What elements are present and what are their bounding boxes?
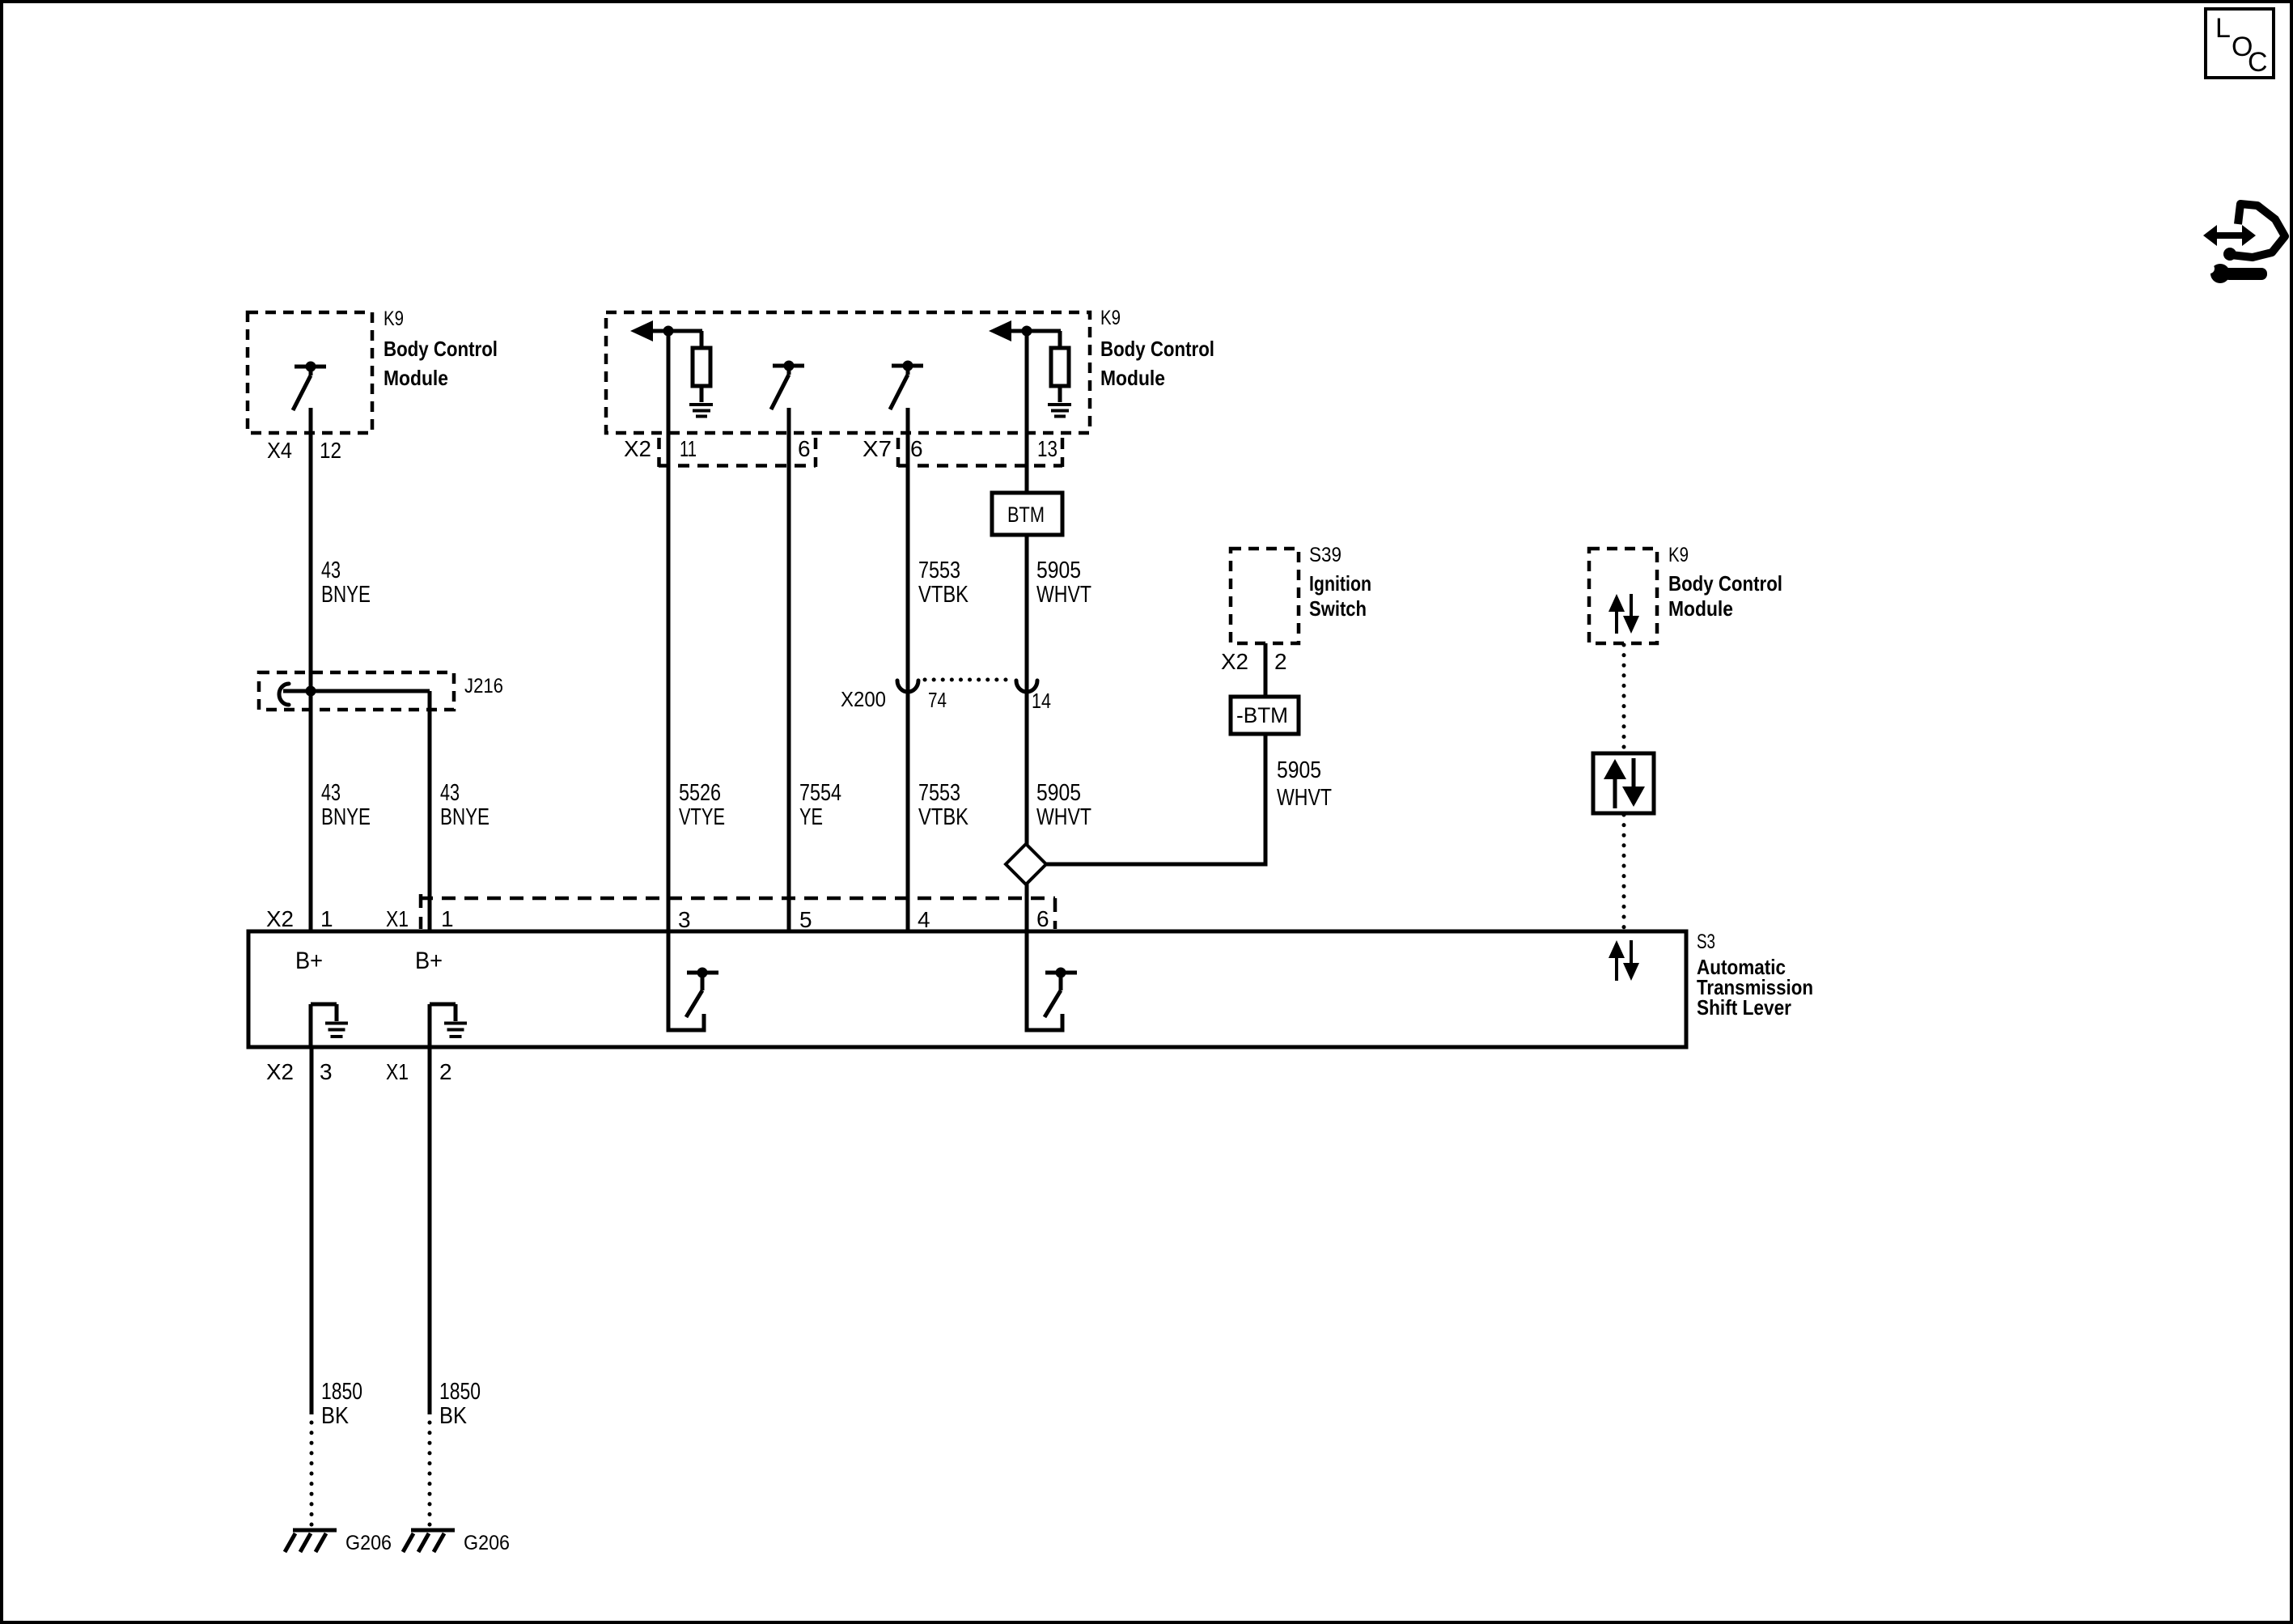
up/down arrows icon (inside S3) (1608, 940, 1639, 981)
svg-text:G206: G206 (345, 1532, 392, 1554)
J216 splice dashed box (259, 672, 454, 710)
shift-interlock wrench icon (2203, 204, 2285, 283)
svg-text:K9: K9 (1100, 307, 1121, 329)
svg-text:14: 14 (1032, 689, 1051, 713)
splice curl (279, 684, 289, 705)
X200 in-line connector (897, 680, 1037, 692)
connector bracket X7 under middle K9 (898, 438, 1062, 467)
svg-text:11: 11 (680, 436, 697, 461)
svg-text:43: 43 (440, 780, 460, 806)
splice diamond (1006, 844, 1046, 884)
left arrow (signal out, right side) (989, 320, 1011, 341)
svg-text:2: 2 (1274, 649, 1287, 674)
internal switch (pin 3) (667, 931, 719, 1032)
up/down arrows icon (inside right K9) (1608, 594, 1639, 634)
svg-text:X7: X7 (863, 436, 892, 461)
LOC reference box (2206, 9, 2274, 78)
wire 43 BNYE from K9 X4-12 down to J216 and S3 (309, 408, 313, 931)
connector bracket X1 above S3 (419, 894, 1055, 929)
ground wire left (S3 X2-3) (310, 1049, 314, 1414)
svg-text:WHVT: WHVT (1036, 804, 1091, 830)
svg-text:5905: 5905 (1036, 780, 1081, 806)
svg-text:X2: X2 (266, 1059, 294, 1084)
svg-text:YE: YE (799, 804, 823, 830)
svg-text:X4: X4 (267, 438, 292, 463)
label 43 BNYE (right lower) (440, 780, 490, 830)
svg-text:Module: Module (1668, 596, 1733, 621)
S3 Automatic Transmission Shift Lever box (248, 931, 1686, 1047)
svg-text:4: 4 (918, 907, 930, 932)
label 1850 BK left (321, 1379, 362, 1429)
svg-text:43: 43 (321, 558, 341, 583)
label 5526 VTYE (679, 780, 725, 830)
junction node pin13 (1022, 326, 1032, 337)
svg-text:BNYE: BNYE (321, 804, 371, 830)
svg-text:X1: X1 (386, 1059, 409, 1084)
dotted link wire (icon to S3) (1622, 815, 1626, 930)
K9 labels (right box) (1668, 544, 1782, 621)
junction node pin11 (663, 326, 674, 337)
svg-text:X1: X1 (386, 906, 409, 931)
svg-text:BNYE: BNYE (321, 582, 371, 608)
wire 5905 WHVT (BTM to S3 pin 6) (1025, 535, 1029, 931)
switch (X7-6, middle K9) (890, 361, 923, 410)
S39 labels (1309, 544, 1371, 621)
dotted ground run left (310, 1423, 314, 1525)
label 5905 WHVT (ignition branch) (1277, 757, 1332, 811)
wire 43 BNYE branch down from J216 (428, 691, 432, 931)
dotted ground run right (428, 1423, 432, 1525)
svg-text:B+: B+ (295, 948, 323, 974)
-BTM box (1231, 697, 1299, 734)
svg-text:K9: K9 (1668, 544, 1689, 566)
svg-text:74: 74 (928, 688, 947, 712)
wire from arrow to resistor branch (651, 329, 702, 333)
K9 Body Control Module box (top middle, dashed) (606, 312, 1090, 433)
svg-text:13: 13 (1037, 436, 1057, 461)
K9 Body Control Module box (top left, dashed) (248, 312, 372, 433)
wire S39 X2-2 down (1264, 643, 1268, 697)
svg-text:G206: G206 (464, 1532, 510, 1554)
svg-text:-BTM: -BTM (1236, 703, 1288, 727)
wire 7554 YE (pin 6 to S3 pin 5) (787, 408, 791, 931)
svg-text:C: C (2248, 47, 2268, 78)
label 1850 BK right (439, 1379, 481, 1429)
wire from arrow to resistor branch right (1010, 329, 1061, 333)
wire 5526 VTYE (pin 11 to S3 pin 3) (667, 331, 671, 931)
svg-text:Shift Lever: Shift Lever (1697, 995, 1791, 1020)
svg-text:VTBK: VTBK (918, 804, 969, 830)
svg-text:X200: X200 (841, 687, 886, 711)
label 5905 WHVT (upper) (1036, 558, 1091, 608)
svg-text:Module: Module (1100, 366, 1165, 390)
svg-text:WHVT: WHVT (1036, 582, 1091, 608)
svg-text:Switch: Switch (1309, 596, 1367, 621)
pin labels X2 2 (1221, 649, 1287, 674)
label 5905 WHVT (lower) (1036, 780, 1091, 830)
pin labels X7 6 13 (863, 436, 1057, 461)
svg-text:12: 12 (320, 438, 341, 463)
boxed up/down arrows icon (1593, 753, 1654, 813)
label 7554 YE (799, 780, 841, 830)
S39 Ignition Switch box (dashed) (1231, 549, 1299, 643)
svg-text:BNYE: BNYE (440, 804, 490, 830)
svg-text:S3: S3 (1697, 931, 1715, 953)
svg-text:1: 1 (320, 906, 333, 931)
junction node J216 (306, 686, 316, 697)
label 7553 VTBK (upper) (918, 558, 969, 608)
switch (pin 6, middle K9) (771, 361, 804, 410)
label 7553 VTBK (lower) (918, 780, 969, 830)
svg-text:5905: 5905 (1277, 757, 1321, 783)
pin labels above S3: X2 1 X1 1 (266, 906, 454, 931)
wire inside J216 (283, 689, 430, 693)
resistor R (pull, left) (693, 331, 710, 402)
ground wire right (S3 X1-2) (428, 1049, 432, 1414)
svg-text:Module: Module (384, 366, 448, 390)
wire 7553 VTBK (X7-6 to S3 pin 4) (906, 408, 910, 931)
svg-text:1850: 1850 (439, 1379, 481, 1405)
X200 labels (841, 687, 1051, 713)
svg-text:6: 6 (910, 436, 923, 461)
svg-text:S39: S39 (1309, 544, 1341, 566)
svg-text:5905: 5905 (1036, 558, 1081, 583)
svg-text:BTM: BTM (1007, 502, 1045, 527)
svg-text:3: 3 (678, 907, 691, 932)
svg-text:J216: J216 (464, 675, 503, 698)
svg-text:L: L (2215, 13, 2231, 44)
svg-text:BK: BK (321, 1403, 350, 1429)
ground G206 right (403, 1530, 510, 1554)
internal ground (X1-2) (430, 1004, 467, 1047)
svg-text:6: 6 (798, 436, 811, 461)
internal ground (X2-3) (311, 1004, 348, 1047)
svg-text:Body Control: Body Control (1668, 571, 1782, 596)
svg-text:WHVT: WHVT (1277, 785, 1332, 811)
svg-text:Ignition: Ignition (1309, 571, 1371, 596)
internal switch (pin 6) (1025, 931, 1078, 1032)
svg-text:7553: 7553 (918, 780, 960, 806)
svg-text:B+: B+ (415, 948, 443, 974)
pin label X4 12 (267, 438, 341, 463)
dotted link wire (K9 to icon) (1622, 645, 1626, 752)
svg-text:3: 3 (320, 1059, 333, 1084)
pin labels above S3: 3 5 4 6 (678, 906, 1049, 932)
svg-text:7553: 7553 (918, 558, 960, 583)
svg-text:43: 43 (321, 780, 341, 806)
svg-text:X2: X2 (1221, 649, 1248, 674)
wire 5905 WHVT (pin 13 to BTM) (1025, 331, 1029, 494)
svg-text:BK: BK (439, 1403, 468, 1429)
svg-text:VTYE: VTYE (679, 804, 725, 830)
ground G206 left (285, 1530, 392, 1554)
svg-text:Body Control: Body Control (1100, 337, 1214, 361)
S3 labels (1697, 931, 1813, 1020)
svg-text:5: 5 (799, 907, 812, 932)
svg-text:Body Control: Body Control (384, 337, 498, 361)
svg-text:1850: 1850 (321, 1379, 362, 1405)
pin labels X2 11 6 (624, 436, 811, 461)
wire from diamond to ignition switch branch (1046, 863, 1268, 867)
BTM box (992, 493, 1062, 535)
ground (inside K9, right) (1048, 405, 1071, 417)
left arrow (signal out) (630, 320, 653, 341)
switch inside K9 top-left (293, 362, 326, 411)
svg-text:7554: 7554 (799, 780, 841, 806)
svg-text:VTBK: VTBK (918, 582, 969, 608)
ground (inside K9, left) (689, 405, 713, 417)
label 43 BNYE (upper) (321, 558, 371, 608)
svg-text:5526: 5526 (679, 780, 721, 806)
connector bracket X2 under middle K9 (659, 438, 816, 467)
svg-text:1: 1 (441, 906, 454, 931)
label 43 BNYE (left lower) (321, 780, 371, 830)
K9 label (top-middle box) (1100, 307, 1214, 390)
svg-text:6: 6 (1036, 906, 1049, 931)
resistor R (pull, right) (1051, 331, 1069, 402)
svg-text:X2: X2 (624, 436, 651, 461)
svg-text:X2: X2 (266, 906, 294, 931)
svg-text:2: 2 (439, 1059, 452, 1084)
K9 label (top-left box) (384, 307, 498, 390)
K9 Body Control Module box (right, dashed) (1589, 549, 1657, 643)
pin labels below S3: X2 3 X1 2 (266, 1059, 452, 1084)
svg-text:K9: K9 (384, 307, 404, 330)
